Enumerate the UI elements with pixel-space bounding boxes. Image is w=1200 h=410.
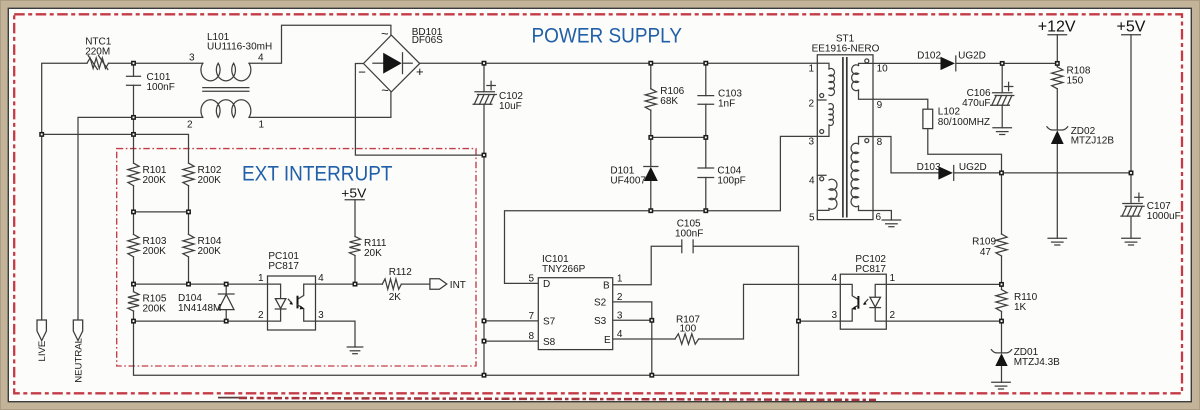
- svg-text:POWER SUPPLY: POWER SUPPLY: [532, 23, 683, 48]
- ground below C107: [1122, 237, 1141, 239]
- ground below PC101 pin3: [347, 346, 363, 348]
- resistor R108 150: [1052, 67, 1063, 89]
- svg-text:+5V: +5V: [341, 185, 366, 200]
- wire: L102 bottom to D103 cathode node: [928, 129, 1002, 173]
- wire: bridge minus down and right to C102 bottom node: [355, 64, 484, 156]
- svg-text:7: 7: [528, 311, 534, 322]
- wire: +5V stub column to rail and C107: [1130, 35, 1132, 239]
- svg-text:470uF: 470uF: [962, 98, 990, 109]
- svg-text:200K: 200K: [198, 175, 222, 186]
- wire: R102 R104 column joins: [188, 186, 190, 284]
- svg-text:2K: 2K: [389, 292, 402, 303]
- wire: row 284.1 to PC101 pin1: [134, 283, 268, 285]
- wire: primary return column x=484 down to S7/S8 and bottom rail: [483, 155, 485, 375]
- resistor R105 200K: [128, 292, 139, 311]
- svg-text:1: 1: [617, 273, 623, 284]
- svg-text:DF06S: DF06S: [412, 35, 443, 46]
- svg-text:1K: 1K: [1014, 302, 1027, 313]
- svg-text:D: D: [543, 279, 550, 290]
- wire: S2 jog to S3 node: [613, 302, 652, 375]
- svg-text:1000uF: 1000uF: [1147, 211, 1181, 222]
- svg-text:1: 1: [808, 63, 814, 74]
- junction nodes: [132, 62, 135, 65]
- svg-text:4: 4: [831, 273, 837, 284]
- svg-text:20K: 20K: [364, 248, 382, 259]
- wire: transformer pin6 to ground: [873, 211, 891, 221]
- svg-text:220M: 220M: [85, 46, 110, 57]
- resistor R101 200K: [128, 163, 139, 186]
- svg-text:2: 2: [890, 310, 896, 321]
- capacitor C106 470uF electrolytic: [993, 92, 1012, 94]
- svg-text:4: 4: [258, 52, 264, 63]
- INT output flag: [430, 279, 447, 290]
- svg-text:S3: S3: [594, 316, 607, 327]
- resistor R102 200K: [183, 163, 194, 186]
- wire: D101 leads: [650, 137, 652, 210]
- svg-text:5: 5: [528, 273, 534, 284]
- svg-text:5: 5: [809, 212, 815, 223]
- svg-text:100nF: 100nF: [147, 82, 175, 93]
- zener ZD01 MTZJ4.3B: [995, 353, 1007, 366]
- wire: C102 column: [483, 63, 485, 155]
- ground below ZD02: [1048, 237, 1067, 239]
- svg-text:100nF: 100nF: [675, 228, 703, 239]
- svg-text:D101: D101: [610, 165, 634, 176]
- diode D102 UG2D: [941, 57, 956, 70]
- svg-text:4: 4: [809, 176, 815, 187]
- wire: D102 out to +12V column: [956, 62, 1057, 64]
- wire: PC102 pin2 to R110/ZD01 node: [886, 320, 1001, 322]
- svg-text:MTZJ12B: MTZJ12B: [1071, 136, 1115, 147]
- scan artifact: doubled border line at bottom: [218, 397, 247, 399]
- svg-text:68K: 68K: [660, 96, 678, 107]
- wire: S7 wire: [484, 320, 538, 322]
- svg-text:200K: 200K: [143, 303, 167, 314]
- wire: C104 leads: [705, 137, 707, 210]
- svg-text:S8: S8: [543, 337, 556, 348]
- wire: live tap to R101/R102 columns: [42, 134, 189, 163]
- resistor R109 47: [996, 234, 1007, 256]
- capacitor C105 100nF: [681, 240, 683, 253]
- wire: D103 out +5V rail: [954, 172, 1130, 174]
- svg-text:TNY266P: TNY266P: [542, 264, 586, 275]
- wire: L101 pin2 to neutral column: [78, 117, 203, 320]
- optocoupler PC102 PC817: [840, 274, 886, 329]
- wire: R106 column top lead: [650, 63, 652, 137]
- wire: row2 wire R106/C103 bottoms: [651, 136, 706, 138]
- wire: transformer pin8 down to D103: [873, 137, 938, 173]
- svg-text:200K: 200K: [143, 246, 167, 257]
- wire: NTC to L101 pin3: [109, 62, 203, 64]
- svg-text:100pF: 100pF: [717, 175, 745, 186]
- svg-text:8: 8: [528, 331, 534, 342]
- svg-text:6: 6: [876, 212, 882, 223]
- svg-text:150: 150: [1067, 75, 1084, 86]
- wire: C105 right to PC102 pin3 column: [693, 246, 798, 375]
- diode D101 UF4007: [644, 167, 658, 181]
- wire: node to R112 to INT: [355, 283, 382, 285]
- wire: live column down to LIVE arrow: [41, 134, 43, 320]
- svg-text:2: 2: [187, 120, 193, 131]
- wire: R107 to PC102 pin4: [699, 284, 841, 339]
- svg-text:EXT INTERRUPT: EXT INTERRUPT: [242, 161, 393, 186]
- svg-text:2: 2: [258, 310, 264, 321]
- svg-text:1N4148M: 1N4148M: [178, 303, 221, 314]
- wire: S3 wire: [613, 319, 652, 321]
- svg-text:LIVE: LIVE: [37, 341, 48, 362]
- svg-text:1nF: 1nF: [718, 98, 735, 109]
- svg-text:2: 2: [617, 292, 623, 303]
- wire: D104 leads: [225, 284, 227, 321]
- svg-text:~: ~: [381, 26, 389, 41]
- wire: R109/R110/ZD01 column: [1001, 173, 1003, 382]
- svg-text:100: 100: [680, 324, 697, 335]
- capacitor C104 100pF: [698, 167, 714, 169]
- svg-text:2: 2: [808, 98, 814, 109]
- svg-text:3: 3: [617, 310, 623, 321]
- wire: +12V stub and R108/ZD02 column: [1056, 35, 1058, 239]
- svg-text:1: 1: [258, 273, 264, 284]
- wire: S8 wire: [484, 340, 538, 342]
- svg-text:1: 1: [259, 120, 265, 131]
- svg-text:UF4007: UF4007: [610, 176, 646, 187]
- svg-text:PC817: PC817: [855, 264, 886, 275]
- wire: bridge plus rail to transformer pin 1: [420, 62, 818, 64]
- wire: bottom rail: [134, 321, 799, 375]
- capacitor C107 1000uF electrolytic: [1123, 203, 1142, 205]
- ground below ZD01: [992, 381, 1011, 383]
- wire: transformer pin10 to D102: [873, 62, 941, 64]
- svg-text:INT: INT: [450, 280, 466, 291]
- zener ZD02 MTZJ12B: [1051, 130, 1064, 144]
- svg-text:3: 3: [318, 310, 324, 321]
- svg-text:E: E: [604, 335, 611, 346]
- resistor R110 1K: [996, 290, 1007, 312]
- ground below C106: [993, 127, 1012, 129]
- wire: PC102 pin1 to R109/R110 node: [886, 283, 1001, 285]
- svg-text:10uF: 10uF: [499, 101, 522, 112]
- svg-text:200K: 200K: [143, 175, 167, 186]
- LIVE terminal arrow: [37, 320, 46, 341]
- svg-text:UG2D: UG2D: [958, 51, 986, 62]
- svg-text:−: −: [358, 65, 366, 80]
- wire: IC B pin to C105 left: [613, 246, 682, 284]
- svg-text:~: ~: [381, 83, 389, 98]
- resistor R111 20K: [349, 237, 360, 256]
- wire: PC102 pin3 wire: [799, 320, 841, 322]
- EXT INTERRUPT dashed box: [117, 149, 476, 366]
- wire: R101 R103 R105 column joins: [133, 186, 135, 321]
- svg-text:4: 4: [617, 329, 623, 340]
- wire: transformer pin9 to L102: [873, 99, 928, 109]
- svg-text:80/100MHZ: 80/100MHZ: [938, 117, 990, 128]
- svg-text:B: B: [603, 281, 610, 292]
- IC101 TNY266P switcher: [538, 278, 612, 350]
- wire: bridge AC bottom down-left to L101 pin1: [249, 92, 391, 117]
- svg-text:D102: D102: [917, 51, 941, 62]
- svg-text:D103: D103: [917, 162, 941, 173]
- optocoupler PC101 PC817: [268, 276, 316, 330]
- wire: main live rail top-left: [42, 63, 87, 134]
- wire: row 211.9 R101-R102 bottoms: [134, 211, 189, 213]
- svg-text:3: 3: [189, 52, 195, 63]
- svg-text:MTZJ4.3B: MTZJ4.3B: [1014, 357, 1060, 368]
- svg-text:8: 8: [877, 137, 883, 148]
- svg-text:10: 10: [877, 63, 889, 74]
- thermistor NTC1 220M: [87, 58, 109, 68]
- svg-text:R109: R109: [972, 236, 996, 247]
- svg-text:200K: 200K: [198, 246, 222, 257]
- wire: C103 column: [705, 63, 707, 137]
- capacitor C103 1nF: [698, 95, 714, 97]
- svg-text:UG2D: UG2D: [959, 162, 987, 173]
- svg-text:3: 3: [808, 136, 814, 147]
- diode D103 UG2D: [938, 166, 953, 179]
- wire: E pin to R107: [613, 338, 675, 340]
- NEUTRAL terminal arrow: [73, 320, 82, 341]
- diode D104 1N4148M: [218, 294, 234, 309]
- wire: drain rail from IC D pin to transformer pin 3/5: [505, 136, 818, 283]
- svg-text:EE1916-NERO: EE1916-NERO: [812, 43, 880, 54]
- capacitor C101 100nF: [127, 75, 141, 77]
- svg-text:47: 47: [980, 247, 992, 258]
- svg-text:PC817: PC817: [268, 261, 299, 272]
- svg-text:1: 1: [890, 273, 896, 284]
- wire: L101 pin4 up and over to bridge AC top: [249, 25, 391, 63]
- wire: C101 column: [133, 63, 135, 163]
- wire: EXT +5V stub to R111: [354, 200, 356, 284]
- resistor R103 200K: [128, 234, 139, 257]
- bridge rectifier BD101 DF06S: [364, 35, 420, 92]
- resistor R112 2K: [382, 279, 401, 289]
- svg-text:3: 3: [831, 310, 837, 321]
- wire: PC101 pin3 to ground: [316, 321, 356, 347]
- resistor R104 200K: [183, 234, 194, 257]
- transformer ST1 EE1916-NERO: [817, 55, 873, 220]
- svg-text:S7: S7: [543, 317, 556, 328]
- common-mode choke L101 UU1116-30mH: [201, 63, 251, 81]
- ground at transformer pin 6: [882, 219, 901, 221]
- svg-text:4: 4: [318, 273, 324, 284]
- svg-text:+12V: +12V: [1038, 19, 1076, 36]
- svg-text:9: 9: [877, 100, 883, 111]
- svg-text:R112: R112: [389, 267, 413, 278]
- svg-text:NEUTRAL: NEUTRAL: [73, 337, 84, 382]
- svg-text:S2: S2: [594, 298, 607, 309]
- svg-text:UU1116-30mH: UU1116-30mH: [207, 42, 272, 53]
- svg-text:+: +: [416, 64, 424, 79]
- ferrite bead L102 80/100MHZ: [923, 109, 933, 128]
- resistor R106 68K: [645, 89, 656, 111]
- wire: PC101 pin4 to node: [316, 283, 356, 285]
- wire: row 321.1 PC101 pin2: [134, 320, 268, 322]
- svg-text:+5V: +5V: [1117, 19, 1146, 36]
- capacitor C102 10uF electrolytic: [475, 91, 494, 93]
- resistor R107 100: [675, 334, 699, 344]
- wire: C106 column: [1001, 63, 1003, 127]
